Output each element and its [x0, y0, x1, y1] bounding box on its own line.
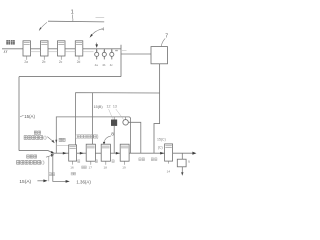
- bottom pipe segment 1 with arrow: [53, 152, 69, 154]
- pump outlet to bottom pipe: [128, 122, 140, 153]
- svg-text:4b: 4b: [102, 63, 106, 67]
- header line y117: [56, 117, 130, 153]
- vessel 2b: [41, 41, 49, 56]
- faint short line near bracket right end: [96, 16, 105, 18]
- svg-text:15(A): 15(A): [24, 114, 35, 119]
- vessel outlet stubs and labels: [27, 56, 79, 60]
- small junction marks below pipe: [78, 158, 157, 163]
- separator box 7: [151, 47, 168, 64]
- svg-text:16: 16: [70, 166, 74, 170]
- svg-text:2d: 2d: [77, 60, 81, 64]
- vessel 2d: [75, 41, 83, 56]
- bottom vessel V3: [101, 144, 110, 161]
- svg-text:8: 8: [111, 132, 114, 137]
- vessel 2a: [23, 41, 31, 56]
- drop from heater to bottom pipe: [113, 126, 115, 154]
- svg-text:2b: 2b: [42, 60, 46, 64]
- faint inlet line to vessel V1: [57, 144, 69, 146]
- stage label text (first mixing): [75, 134, 78, 139]
- loop bottom corner into mixer: [19, 151, 53, 153]
- bracket line over first stage: [48, 20, 104, 23]
- bottom vessel V5: [165, 144, 173, 161]
- svg-text:15(A): 15(A): [19, 179, 31, 185]
- tapped stream down from mixer: [53, 153, 66, 181]
- leader squiggle from label 1: [71, 15, 74, 22]
- svg-text:13: 13: [113, 105, 117, 109]
- faint marks near junction x121: [115, 50, 118, 51]
- svg-text:15(C): 15(C): [157, 138, 166, 142]
- svg-text:17: 17: [89, 166, 93, 170]
- arrow from block A: [47, 137, 53, 142]
- svg-text:2c: 2c: [59, 60, 63, 64]
- feed text (raw material): [6, 40, 14, 44]
- under-vessel stubs bottom row: [73, 161, 169, 165]
- pump circle device: [125, 117, 127, 120]
- sampler square: [177, 159, 186, 167]
- pipe V4-V5 with arrow: [129, 152, 165, 154]
- feed line: [2, 48, 23, 50]
- svg-text:14: 14: [167, 169, 171, 173]
- label 15(A) on loop: [20, 115, 24, 116]
- text block A line2: [24, 136, 27, 140]
- recycle loop left vertical: [18, 77, 20, 151]
- bottom vessel V2: [86, 144, 95, 161]
- svg-text:18: 18: [104, 166, 108, 170]
- text block B line1: [27, 155, 30, 158]
- bottom vessel V4: [120, 144, 129, 161]
- pipe between vessels: [31, 48, 122, 50]
- text block A line1: [34, 131, 37, 134]
- svg-text:4a: 4a: [95, 63, 99, 67]
- product line with end arrow: [173, 152, 194, 154]
- pipe V1-V2 with arrow: [77, 152, 87, 154]
- valve circles group: [95, 49, 114, 60]
- down arrow from sampler: [181, 167, 183, 173]
- curved pointer from bracket to vessel row: [40, 22, 47, 29]
- vessel 2c: [58, 41, 66, 56]
- svg-text:12: 12: [107, 105, 111, 109]
- text block B line2: [17, 161, 20, 165]
- tick 11: [4, 50, 5, 53]
- stub to sampler square: [181, 153, 183, 159]
- arrow from block B: [46, 155, 52, 157]
- drop line into vessel V2: [91, 93, 93, 145]
- svg-text:2a: 2a: [24, 60, 28, 64]
- svg-text:9: 9: [188, 160, 190, 164]
- pipe V3-V4 with arrow: [110, 152, 120, 154]
- branch to separator box: [121, 53, 151, 55]
- svg-text:1.36(A): 1.36(A): [76, 179, 91, 184]
- tiny label under pipe between V1 and V2: [82, 166, 84, 169]
- cross line from box7 outlet to first bottom vessel: [76, 93, 160, 145]
- down arrowhead on x56 line: [55, 140, 57, 144]
- svg-text:15(B): 15(B): [94, 105, 103, 109]
- svg-text:19: 19: [122, 166, 126, 170]
- svg-text:4: 4: [102, 26, 105, 31]
- svg-text:(C): (C): [158, 145, 163, 149]
- secondary lines between vessels: [31, 51, 94, 53]
- heater device (dark box): [113, 117, 115, 120]
- small blob label on tapped line: [49, 173, 51, 176]
- tiny label above elbow: [71, 172, 73, 175]
- recycle loop top: [19, 76, 121, 78]
- feed arrow into pipe junction: [96, 43, 98, 46]
- svg-text:7: 7: [165, 34, 168, 40]
- pipe V2-V3: [95, 152, 101, 154]
- bottom vessel V1: [69, 145, 77, 161]
- small label left of drop line: [59, 138, 62, 141]
- box7 bottom outlet: [154, 64, 160, 153]
- vertical drop at x=121: [120, 45, 122, 77]
